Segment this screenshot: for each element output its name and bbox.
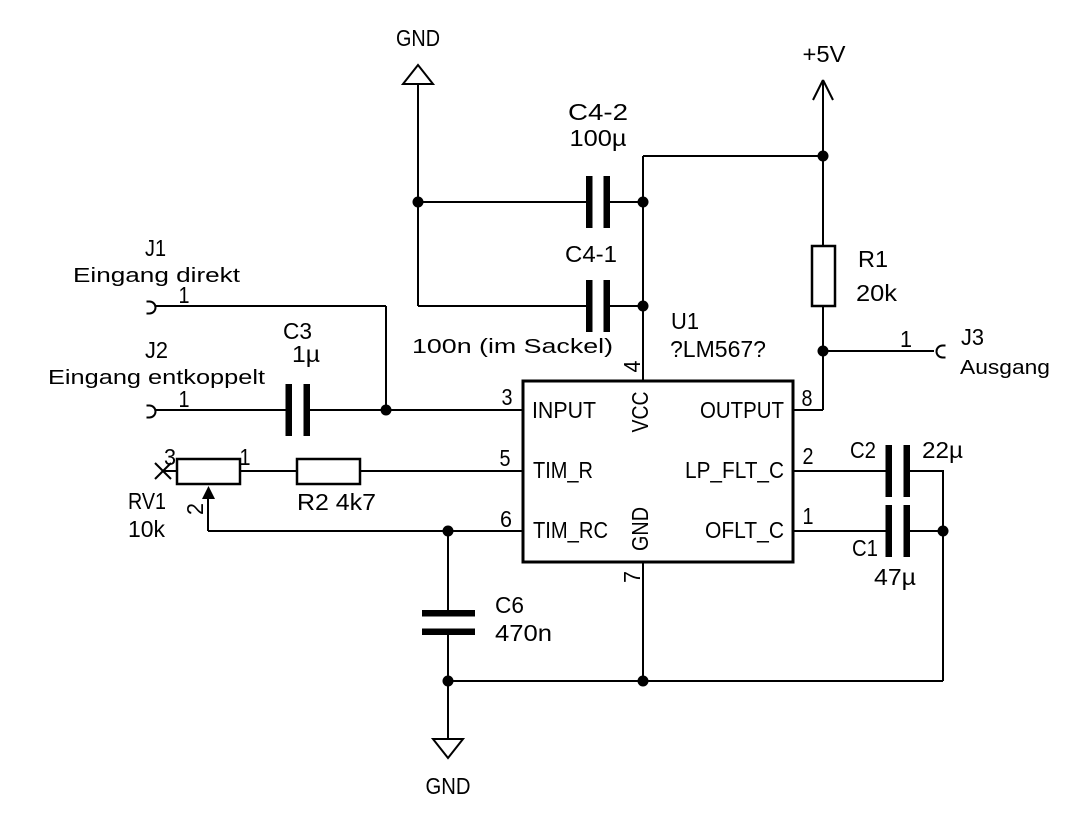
- svg-text:1: 1: [803, 503, 814, 529]
- node junction at GND/C4-2: [413, 197, 424, 208]
- svg-text:3: 3: [164, 444, 176, 470]
- svg-text:6: 6: [500, 506, 512, 532]
- wire VCC vertical to pin 4: [642, 156, 644, 381]
- svg-text:47µ: 47µ: [874, 564, 916, 590]
- node junction C1/C2: [938, 526, 949, 537]
- svg-text:1: 1: [179, 282, 190, 308]
- svg-text:10k: 10k: [128, 516, 165, 542]
- pin 4 VCC: [619, 360, 653, 432]
- connector J2: [48, 337, 266, 418]
- svg-text:Eingang entkoppelt: Eingang entkoppelt: [48, 367, 266, 389]
- svg-text:GND: GND: [426, 773, 471, 799]
- capacitor C1: [852, 505, 916, 590]
- node junction bottom left: [443, 676, 454, 687]
- node junction C3/J1: [381, 405, 392, 416]
- svg-text:U1: U1: [671, 308, 699, 334]
- wire GND bottom drop: [447, 681, 449, 739]
- svg-text:8: 8: [802, 385, 813, 411]
- svg-text:2: 2: [803, 443, 814, 469]
- svg-text:RV1: RV1: [128, 488, 166, 514]
- svg-text:1: 1: [240, 444, 251, 470]
- svg-text:3: 3: [502, 384, 513, 410]
- wire C6 upper: [447, 531, 449, 611]
- capacitor C4-1: [412, 241, 617, 358]
- svg-text:GND: GND: [396, 25, 440, 51]
- capacitor C6: [422, 592, 552, 646]
- connector J1: [73, 235, 241, 314]
- potentiometer RV1: [128, 444, 297, 542]
- wire +5V vertical: [822, 80, 824, 410]
- svg-text:2: 2: [182, 503, 208, 515]
- IC U1 ?LM567? body: [523, 308, 793, 562]
- svg-text:OUTPUT: OUTPUT: [700, 397, 784, 423]
- svg-text:C4-1: C4-1: [565, 241, 617, 267]
- svg-text:TIM_R: TIM_R: [533, 457, 593, 483]
- svg-text:C1: C1: [852, 535, 878, 561]
- svg-text:+5V: +5V: [803, 41, 847, 67]
- wire C4-2 right: [610, 201, 643, 203]
- svg-text:C6: C6: [495, 592, 524, 618]
- node junction C4-1 right: [638, 301, 649, 312]
- wire J2 horizontal: [155, 409, 286, 411]
- svg-text:INPUT: INPUT: [532, 397, 596, 423]
- pin 1 OFLT_C: [705, 503, 814, 543]
- wire OUTPUT pin 8: [793, 409, 823, 411]
- wire GND top vertical: [417, 84, 419, 306]
- svg-text:J2: J2: [145, 337, 168, 363]
- svg-text:C2: C2: [850, 437, 876, 463]
- wire wiper vertical: [207, 499, 209, 531]
- svg-text:TIM_RC: TIM_RC: [533, 517, 608, 543]
- svg-text:OFLT_C: OFLT_C: [705, 517, 784, 543]
- wire pin 1 to C1: [793, 530, 886, 532]
- svg-text:?LM567?: ?LM567?: [670, 336, 766, 362]
- node junction +5V feed: [818, 151, 829, 162]
- node junction C4-2 right: [638, 197, 649, 208]
- svg-text:5: 5: [500, 445, 511, 471]
- resistor R2: [297, 459, 523, 515]
- ground GND (top): [396, 25, 440, 84]
- wire right vertical to bottom bus: [942, 531, 944, 681]
- node junction pin 7 / bottom bus: [638, 676, 649, 687]
- capacitor C2: [850, 437, 963, 497]
- pin 2 LP_FLT_C: [685, 443, 814, 483]
- pin 8 OUTPUT: [700, 385, 813, 423]
- node junction R1/J3/OUTPUT: [818, 346, 829, 357]
- svg-text:R1: R1: [858, 246, 888, 272]
- wire pin 2 to C2: [793, 470, 886, 472]
- capacitor C3: [283, 318, 320, 436]
- svg-text:4: 4: [619, 360, 645, 372]
- wire wiper to pin 6: [208, 530, 523, 532]
- pin 7 GND: [619, 507, 653, 681]
- wire C4-2 left: [418, 201, 586, 203]
- svg-text:470n: 470n: [495, 620, 552, 646]
- node junction TIM_RC/C6: [443, 526, 454, 537]
- capacitor C4-2: [568, 99, 628, 228]
- wire J1 vertical: [385, 306, 387, 410]
- resistor R1: [812, 246, 898, 306]
- pin 6 TIM_RC: [500, 506, 608, 543]
- svg-text:22µ: 22µ: [922, 437, 963, 463]
- connector J3: [900, 324, 1050, 379]
- wire C4-1 left: [418, 305, 586, 307]
- svg-text:R2 4k7: R2 4k7: [297, 489, 376, 515]
- wire +5V feed horizontal: [643, 155, 823, 157]
- svg-text:J3: J3: [961, 324, 984, 350]
- svg-text:1µ: 1µ: [292, 341, 320, 367]
- svg-text:1: 1: [900, 326, 912, 352]
- wire C1 right: [910, 530, 943, 532]
- svg-text:C4-2: C4-2: [568, 99, 628, 125]
- pin 5 TIM_R: [500, 445, 594, 483]
- svg-text:Eingang direkt: Eingang direkt: [73, 265, 241, 287]
- wire C6 lower: [447, 634, 449, 681]
- svg-text:J1: J1: [145, 235, 166, 261]
- wire J3: [823, 350, 934, 352]
- wire C4-1 right: [610, 305, 643, 307]
- svg-text:20k: 20k: [856, 280, 898, 306]
- svg-text:7: 7: [619, 571, 645, 583]
- svg-text:100µ: 100µ: [570, 125, 627, 151]
- svg-text:VCC: VCC: [627, 392, 653, 433]
- wire C3 to INPUT: [310, 409, 523, 411]
- ground GND (bottom): [426, 739, 471, 799]
- wire C2 right: [910, 471, 943, 531]
- wire bottom bus: [448, 680, 943, 682]
- wire J1 horizontal: [155, 305, 386, 307]
- power +5V symbol: [803, 41, 847, 100]
- svg-text:100n (im Sackel): 100n (im Sackel): [412, 336, 613, 358]
- svg-text:1: 1: [179, 386, 190, 412]
- svg-text:GND: GND: [627, 507, 653, 551]
- svg-text:Ausgang: Ausgang: [960, 357, 1050, 379]
- svg-text:LP_FLT_C: LP_FLT_C: [685, 457, 784, 483]
- pin 3 INPUT: [502, 384, 597, 423]
